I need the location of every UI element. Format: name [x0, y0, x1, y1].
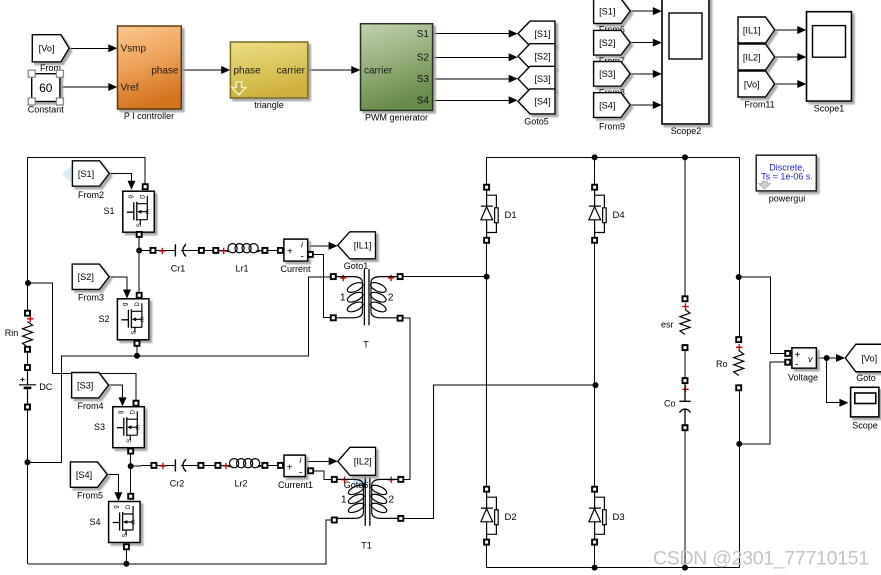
port D2 anode — [484, 487, 489, 492]
svg-text:D: D — [140, 194, 146, 199]
svg-text:From3: From3 — [78, 293, 104, 303]
wire T sec bottom to T1 sec top — [403, 318, 411, 479]
goto tag Goto6 [IL2] — [338, 447, 376, 475]
port Cr1 right — [199, 248, 204, 253]
wire Vout+ to Voltage — [739, 277, 785, 353]
wire node to S4 drain — [130, 466, 132, 494]
wire From11->Scope1 — [775, 29, 804, 31]
diode D1 — [481, 190, 493, 241]
arrowhead — [509, 53, 518, 61]
wire From11->Scope1 — [775, 83, 804, 85]
dc source DC — [19, 370, 36, 405]
wire From9->Scope2 — [630, 104, 660, 106]
port T secondary bottom — [398, 316, 403, 321]
svg-text:[IL1]: [IL1] — [743, 25, 761, 35]
svg-text:From5: From5 — [77, 490, 103, 500]
wire D4 to D3 — [594, 243, 596, 487]
polarity + Cr2 — [160, 463, 166, 469]
node S2 source rail — [134, 353, 140, 359]
wire Cr1 right lead — [181, 249, 199, 251]
wire secondary bottom rail — [487, 567, 740, 569]
svg-text:Goto5: Goto5 — [524, 117, 549, 127]
svg-text:1: 1 — [341, 494, 347, 505]
wire triangle->PWM — [308, 69, 358, 71]
polarity + Rin — [27, 316, 33, 322]
wire From3 to S2 gate — [109, 277, 127, 296]
transistor S2 MOSFET block — [117, 299, 148, 340]
svg-text:S4: S4 — [417, 96, 430, 107]
capacitor Cr1 — [174, 244, 176, 256]
resistor Rin — [23, 322, 33, 348]
wire S2 source net to T primary top — [28, 277, 331, 462]
wire Voltage v to Scope — [827, 358, 847, 403]
wire esr to Co — [684, 350, 686, 378]
svg-text:Lr2: Lr2 — [234, 479, 247, 489]
wire Lr2 left lead — [221, 464, 230, 466]
wire Lr1 left lead — [218, 249, 228, 251]
wire DC+ branch to S3 drain — [28, 283, 137, 401]
port S4 source — [124, 544, 129, 549]
arrowhead — [108, 83, 117, 91]
port Ro bottom — [736, 385, 741, 390]
svg-text:Lr1: Lr1 — [235, 264, 248, 274]
svg-text:Current: Current — [280, 264, 311, 274]
port Rin bottom — [25, 347, 30, 352]
node D4 top rail — [592, 154, 598, 160]
from tag [Vo] of From11 — [738, 71, 775, 97]
decor2 — [352, 475, 372, 490]
svg-text:D1: D1 — [505, 210, 517, 221]
node Voltage output — [824, 355, 830, 361]
svg-text:-: - — [301, 252, 304, 263]
wire S3->Goto5 — [433, 78, 516, 80]
diode D4 — [589, 190, 601, 241]
svg-text:Scope: Scope — [852, 421, 878, 431]
svg-text:g: g — [118, 411, 124, 414]
svg-text:Cr2: Cr2 — [170, 479, 185, 489]
from tag From2 [S1] — [72, 161, 109, 186]
arrowhead — [351, 66, 360, 74]
node esr top rail — [682, 154, 688, 160]
port T1 secondary bottom — [398, 516, 403, 521]
svg-text:Co: Co — [664, 399, 676, 409]
resistor Ro — [734, 351, 744, 376]
capacitor Cr2 — [174, 459, 176, 471]
goto tag [S1] of Goto5 — [518, 21, 555, 46]
wire Current1 i to Goto6 — [306, 460, 336, 462]
wire From9->Scope2 — [630, 73, 660, 75]
svg-text:Current1: Current1 — [278, 480, 313, 490]
port Current1 input — [278, 463, 283, 468]
svg-text:S1: S1 — [103, 206, 114, 216]
port Voltage + — [785, 351, 790, 356]
arrowhead — [329, 242, 338, 250]
arrowhead — [797, 53, 806, 61]
port D1 anode — [484, 185, 489, 190]
svg-text:Scope2: Scope2 — [671, 126, 702, 136]
wire top rail to D1 — [486, 157, 488, 184]
constant block Constant — [32, 74, 60, 102]
port Lr1 left — [213, 248, 218, 253]
selection handle — [56, 98, 63, 105]
svg-text:v: v — [808, 354, 813, 364]
voltage sensor Voltage — [792, 348, 817, 368]
wire From9->Scope2 — [630, 42, 660, 44]
polarity + T1 secondary — [388, 477, 394, 483]
from tag From5 [S4] — [70, 462, 107, 487]
port Current input — [278, 248, 283, 253]
port Rin top — [25, 311, 30, 316]
wire Cr2 left lead — [157, 464, 176, 466]
node Co bottom rail — [682, 565, 688, 571]
wire top rail to D4 — [594, 157, 596, 184]
polarity + Cr1 — [159, 248, 165, 254]
svg-text:g: g — [122, 303, 128, 306]
port Cr2 left — [151, 463, 156, 468]
port Ro top — [736, 337, 741, 342]
svg-text:[Vo]: [Vo] — [744, 79, 760, 89]
svg-text:S1: S1 — [417, 29, 430, 40]
port S1 source — [137, 232, 142, 237]
polarity + Co — [682, 386, 688, 392]
svg-text:Goto6: Goto6 — [344, 480, 369, 490]
wire top rail to esr — [684, 157, 686, 296]
wire Current to T primary bottom — [313, 254, 331, 317]
port Cr2 right — [198, 463, 203, 468]
svg-text:carrier: carrier — [277, 66, 306, 77]
transformer T — [336, 277, 363, 283]
node S4 on bottom rail — [123, 561, 129, 567]
svg-text:[IL2]: [IL2] — [743, 52, 761, 62]
port D1 cathode — [484, 238, 489, 243]
wire From9->Scope2 — [630, 10, 660, 12]
arrowhead — [797, 26, 806, 34]
svg-text:D: D — [135, 301, 141, 306]
svg-text:CSDN @2301_77710151: CSDN @2301_77710151 — [653, 548, 869, 570]
wire Current i to Goto1 — [308, 245, 336, 247]
inductor Lr1 — [228, 244, 237, 253]
arrowhead — [509, 30, 518, 38]
node D1/D2 midpoint — [484, 274, 490, 280]
svg-text:[S3]: [S3] — [77, 381, 93, 391]
svg-text:phase: phase — [234, 66, 262, 77]
wire S4 source to bottom rail — [125, 549, 127, 564]
wire secondary top rail — [487, 156, 740, 158]
svg-text:From2: From2 — [78, 190, 104, 200]
arrowhead — [653, 70, 662, 78]
wire From5 to S4 gate — [107, 475, 118, 498]
svg-text:From9: From9 — [599, 122, 625, 132]
svg-text:[S3]: [S3] — [534, 74, 550, 84]
svg-text:Vsmp: Vsmp — [121, 44, 147, 55]
port S1 drain — [143, 184, 148, 189]
transistor S3 MOSFET block — [113, 407, 145, 448]
from tag [S3] of From9 group — [594, 62, 631, 87]
transformer T1 — [337, 479, 364, 485]
arrowhead — [653, 39, 662, 47]
inductor Lr2 — [230, 459, 239, 468]
wire Vout- to Voltage — [739, 362, 785, 444]
svg-text:+: + — [287, 247, 293, 258]
svg-text:[S2]: [S2] — [599, 38, 615, 48]
svg-text:+: + — [287, 462, 293, 473]
PWM generator block — [361, 24, 433, 111]
arrowhead — [509, 75, 518, 83]
from tag From [Vo] — [32, 35, 69, 62]
svg-text:esr: esr — [661, 320, 674, 330]
port Current1 passthrough — [308, 468, 313, 473]
svg-text:[S4]: [S4] — [599, 100, 615, 110]
polarity + Ro — [736, 344, 742, 350]
wire left rail upper — [27, 157, 29, 310]
svg-text:1: 1 — [340, 293, 346, 304]
powergui block — [756, 155, 816, 191]
wire S1 source to node — [138, 237, 140, 251]
scope Scope — [851, 387, 879, 417]
arrowhead — [653, 7, 662, 15]
svg-text:carrier: carrier — [364, 66, 393, 77]
svg-text:Ro: Ro — [716, 359, 728, 369]
svg-text:g: g — [128, 195, 134, 198]
arrowhead — [509, 96, 518, 104]
port S2 source — [135, 341, 140, 346]
svg-text:Voltage: Voltage — [788, 373, 818, 383]
wire Lr2 to Current1 — [268, 464, 278, 466]
wire S2->Goto5 — [433, 56, 516, 58]
goto tag Goto1 [IL1] — [338, 232, 376, 259]
port S3 source — [128, 449, 133, 454]
port S2 drain — [137, 293, 142, 298]
wire node to Cr1 — [139, 249, 150, 251]
goto tag [S3] of Goto5 — [518, 66, 555, 91]
wire Cr2 right lead — [181, 464, 198, 466]
wire From->Vsmp — [70, 47, 116, 49]
from tag [IL2] of From11 — [738, 44, 775, 70]
svg-text:triangle: triangle — [254, 100, 284, 110]
from tag [IL1] of From11 — [738, 17, 775, 43]
arrowhead — [653, 101, 662, 109]
port D3 anode — [592, 487, 597, 492]
arrowhead — [836, 354, 845, 362]
svg-text:[S2]: [S2] — [534, 52, 550, 62]
node D4/D3 midpoint — [593, 382, 599, 388]
port T1 primary top — [332, 477, 337, 482]
wire Ro rail lower — [738, 390, 740, 567]
svg-text:S3: S3 — [94, 422, 105, 432]
svg-text:D4: D4 — [613, 210, 625, 221]
scope Scope1 — [807, 12, 852, 101]
polarity + esr — [682, 303, 688, 309]
svg-text:[S3]: [S3] — [599, 69, 615, 79]
wire Rin to DC — [27, 352, 29, 365]
svg-text:phase: phase — [151, 66, 179, 77]
port T secondary top — [398, 274, 403, 279]
svg-text:P I controller: P I controller — [124, 111, 174, 121]
port Current passthrough — [308, 252, 313, 257]
port D4 anode — [592, 185, 597, 190]
svg-text:D: D — [126, 504, 132, 509]
current sensor Current — [284, 239, 308, 261]
port Co bottom — [683, 425, 688, 430]
svg-text:-: - — [795, 359, 798, 370]
wire D1 to D2 — [486, 243, 488, 487]
current sensor Current1 — [284, 455, 305, 477]
wire phase->triangle — [181, 69, 228, 71]
svg-text:Scope1: Scope1 — [814, 104, 845, 114]
selection handle — [28, 70, 35, 77]
wire S4->Goto5 — [433, 99, 516, 101]
svg-text:[S2]: [S2] — [78, 272, 94, 282]
node Ro bottom — [736, 441, 742, 447]
wire node to S2 drain — [138, 251, 140, 293]
wire Current1 to T1 primary top — [313, 471, 332, 480]
svg-text:S4: S4 — [89, 517, 100, 527]
wire S3 source to node — [130, 454, 132, 467]
svg-text:powergui: powergui — [769, 194, 806, 204]
port Lr2 right — [262, 463, 267, 468]
svg-text:Cr1: Cr1 — [171, 264, 186, 274]
port T primary top — [331, 274, 336, 279]
svg-text:D3: D3 — [613, 512, 625, 523]
port DC bottom — [25, 405, 30, 410]
port T1 secondary top — [398, 477, 403, 482]
arrowhead — [123, 290, 131, 299]
svg-text:[S4]: [S4] — [534, 97, 550, 107]
svg-text:g: g — [114, 505, 120, 508]
wire S1->Goto5 — [433, 33, 516, 35]
wire S2 source stub — [136, 346, 138, 356]
scope Scope2 — [662, 0, 709, 124]
diode D3 — [589, 492, 601, 542]
wire Lr2 right lead — [258, 464, 262, 466]
svg-text:Vref: Vref — [121, 83, 139, 94]
svg-text:[IL2]: [IL2] — [354, 457, 372, 467]
wire From2 to S1 gate — [109, 174, 131, 187]
goto tag [S4] of Goto5 — [518, 89, 555, 114]
svg-text:[S4]: [S4] — [76, 470, 92, 480]
wire Lr1 to Current — [268, 249, 278, 251]
port S3 drain — [134, 401, 139, 406]
port Lr2 left — [215, 463, 220, 468]
arrowhead — [119, 397, 127, 406]
port Voltage - — [785, 360, 790, 365]
svg-text:Ts = 1e-06 s.: Ts = 1e-06 s. — [761, 172, 813, 182]
wire From11->Scope1 — [775, 56, 804, 58]
port T1 primary bottom — [332, 518, 337, 523]
goto tag [S2] of Goto5 — [518, 44, 555, 69]
polarity + Lr1 — [221, 248, 227, 254]
arrowhead — [108, 44, 117, 52]
capacitor Co — [679, 383, 690, 401]
goto tag Goto [Vo] — [845, 344, 881, 372]
port S4 drain — [128, 494, 133, 499]
decor — [62, 165, 83, 182]
arrowhead — [839, 399, 848, 407]
wire Cr2 to Lr2 — [204, 464, 216, 466]
wire T1 sec bottom to D4/D3 node — [403, 385, 595, 518]
arrowhead — [128, 181, 136, 190]
transistor S4 MOSFET block — [109, 502, 141, 543]
from tag [S2] of From9 group — [594, 30, 631, 55]
svg-text:Rin: Rin — [5, 328, 19, 338]
from tag [S4] of From9 group — [594, 93, 631, 118]
svg-text:60: 60 — [39, 81, 53, 95]
wire DC- down left rail — [27, 410, 29, 564]
polarity + T primary — [340, 275, 346, 281]
wire T sec top to D1/D2 node — [403, 276, 487, 278]
port D2 cathode — [484, 540, 489, 545]
svg-text:D2: D2 — [505, 512, 517, 523]
wire Lr1 right lead — [257, 249, 263, 251]
wire D2 to bottom rail — [486, 545, 488, 568]
svg-text:T1: T1 — [361, 541, 372, 551]
port D4 cathode — [592, 238, 597, 243]
arrowhead — [221, 66, 230, 74]
wire Cr1 left lead — [156, 249, 176, 251]
svg-text:2: 2 — [388, 293, 394, 304]
port esr top — [683, 296, 688, 301]
port D3 cathode — [592, 540, 597, 545]
svg-text:Goto: Goto — [856, 373, 876, 383]
wire Cr1 to Lr1 — [204, 249, 213, 251]
node DC+ branch — [25, 280, 31, 286]
svg-text:-: - — [299, 467, 302, 478]
arrowhead — [797, 80, 806, 88]
arrowhead — [329, 457, 338, 465]
node S3/S4 midpoint — [128, 463, 134, 469]
wire From4 to S3 gate — [109, 385, 123, 403]
svg-text:[S1]: [S1] — [534, 29, 550, 39]
polarity + T1 primary — [341, 477, 347, 483]
wire Constant->Vref — [62, 86, 116, 88]
svg-text:[Vo]: [Vo] — [861, 353, 877, 363]
from tag From4 [S3] — [72, 373, 109, 398]
resistor esr — [680, 310, 690, 335]
node D3 bottom rail — [592, 565, 598, 571]
wire Voltage v to Goto — [816, 357, 842, 359]
wire Ro rail upper — [738, 157, 740, 337]
triangle generator block — [230, 42, 307, 98]
port Lr1 right — [262, 248, 267, 253]
from tag From3 [S2] — [72, 264, 109, 289]
port esr bottom — [683, 345, 688, 350]
svg-text:S2: S2 — [417, 53, 430, 64]
wire Co to bottom rail — [684, 430, 686, 567]
wire bottom rail to T1 primary bottom — [28, 520, 332, 564]
port Cr1 left — [151, 248, 156, 253]
selection handle — [28, 98, 35, 105]
svg-text:T: T — [363, 340, 369, 350]
polarity + Lr2 — [223, 463, 229, 469]
svg-text:[S1]: [S1] — [78, 169, 94, 179]
polarity + T secondary — [388, 275, 394, 281]
wire node to Cr2 — [131, 464, 152, 467]
svg-text:[Vo]: [Vo] — [39, 44, 55, 54]
wire DC+ top rail to S1 drain — [28, 157, 146, 184]
node DC- branch — [25, 459, 31, 465]
svg-text:From4: From4 — [77, 401, 103, 411]
wire D3 to bottom rail — [594, 545, 596, 568]
port Co top — [683, 378, 688, 383]
node S1/S2 midpoint — [136, 248, 142, 254]
svg-text:S3: S3 — [417, 74, 430, 85]
svg-text:D: D — [130, 409, 136, 414]
svg-text:DC: DC — [39, 382, 52, 392]
svg-text:From11: From11 — [744, 100, 774, 110]
selection handle — [56, 70, 63, 77]
svg-text:Constant: Constant — [28, 104, 65, 114]
arrowhead — [114, 492, 122, 501]
